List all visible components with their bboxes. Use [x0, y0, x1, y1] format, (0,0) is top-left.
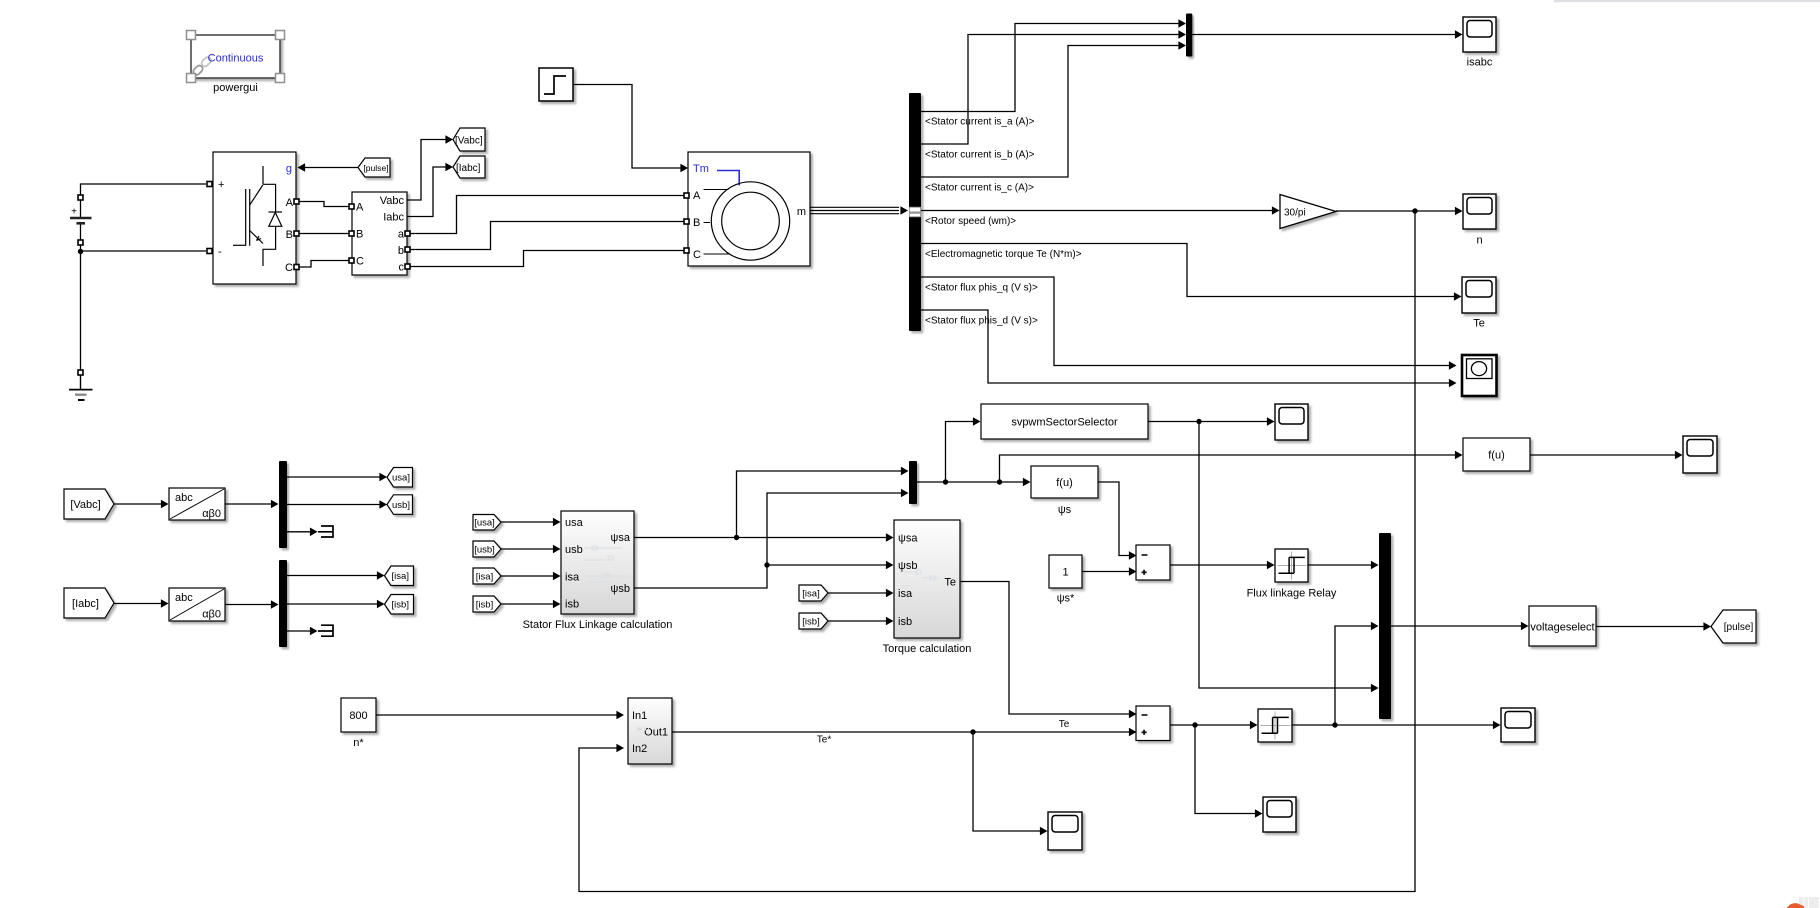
wire step to motor Tm [573, 85, 681, 169]
svg-text:[pulse]: [pulse] [363, 163, 388, 173]
svg-text:n*: n* [353, 737, 364, 749]
wire 800 to controller In1 [376, 714, 618, 716]
svg-text:Iabc: Iabc [383, 212, 404, 224]
wire bus out1 stator current is_a to Mux [921, 24, 1179, 112]
junction psi sa node [734, 535, 739, 540]
svg-text:B: B [286, 229, 293, 241]
From tag [usb] input [473, 541, 501, 557]
svg-text:αβ0: αβ0 [202, 508, 221, 520]
wire inverter A to measurement A [299, 202, 349, 207]
wire bus out6 stator flux phis_q to XY graph [921, 277, 1450, 366]
Demux currents [279, 560, 287, 647]
svg-text:<Stator flux phis_d (V s)>: <Stator flux phis_d (V s)> [925, 316, 1038, 327]
svg-text:[isb]: [isb] [802, 616, 819, 627]
powergui block (selected) [187, 31, 285, 83]
wire psi sa to torque calc [634, 537, 887, 539]
wire isa to torque calc [828, 592, 887, 594]
wire measurement Vabc to Goto tag [407, 140, 447, 201]
Scope n [1463, 194, 1496, 229]
svg-text:svpwmSectorSelector: svpwmSectorSelector [1011, 417, 1118, 429]
wire demux2 isb [287, 603, 378, 605]
Universal Bridge inverter block [213, 152, 296, 284]
svg-text:30/pi: 30/pi [1284, 208, 1306, 219]
svg-text:-: - [218, 246, 222, 258]
svg-text:+: + [218, 179, 224, 191]
Goto tag [Iabc] [453, 156, 485, 178]
svpwmSectorSelector block [981, 404, 1148, 439]
wire mux to isabc scope [1192, 34, 1455, 36]
wire isb to torque calc [828, 620, 887, 622]
svg-text:[usb]: [usb] [474, 544, 495, 555]
svg-text:In2: In2 [632, 743, 647, 755]
wire psi sa branch to mux2 [737, 471, 903, 538]
wire branch to flux angle Fcn [1000, 455, 1457, 482]
svg-text:ψs: ψs [1058, 504, 1072, 516]
wire gain to n scope [1336, 210, 1456, 212]
wire from Iabc to transform2 [114, 603, 162, 605]
bus wire motor m to Bus Selector [810, 207, 899, 213]
Scope torque error [1263, 797, 1296, 832]
wire demux2 unused to terminator [287, 630, 311, 632]
Fcn f(u) flux magnitude [1031, 466, 1098, 498]
Sum torque error [1136, 706, 1170, 741]
wire psi sb to torque calc [634, 493, 902, 588]
wire inverter C to measurement C [299, 261, 349, 268]
svg-text:[Iabc]: [Iabc] [72, 598, 99, 610]
wire isb to flux subsystem [501, 603, 554, 605]
wire measurement Iabc to Goto tag [407, 167, 447, 217]
svg-text:B: B [693, 217, 700, 229]
Constant 800 speed reference [341, 698, 376, 732]
Terminator 1 [318, 526, 333, 537]
wire torque error branch to scope [1195, 725, 1256, 814]
From tag [pulse] to inverter g [358, 158, 390, 177]
svg-text:Te: Te [1059, 719, 1070, 730]
svg-text:[isa]: [isa] [392, 571, 409, 582]
wire bus out3 stator current is_c to Mux [921, 46, 1179, 178]
measurement port squares [349, 204, 354, 209]
svg-text:[isb]: [isb] [392, 600, 409, 611]
Goto tag isa [385, 566, 414, 586]
Goto tag isb [385, 595, 414, 615]
wire battery+ to inverter+ [81, 184, 207, 196]
wire transform1 to demux1 [225, 503, 272, 505]
wire usa to flux subsystem [501, 521, 554, 523]
Goto tag [pulse] [1711, 610, 1756, 643]
Asynchronous Machine motor block [688, 152, 810, 266]
wire usb to flux subsystem [501, 548, 554, 550]
svg-text:usa]: usa] [392, 473, 410, 484]
junction battery minus node [78, 249, 83, 254]
svg-text:voltageselect: voltageselect [1530, 622, 1594, 634]
wire measurement a to motor A [410, 196, 684, 234]
Scope angle [1683, 436, 1717, 473]
svg-text:ψsb: ψsb [611, 583, 630, 595]
svg-text:f(u): f(u) [1488, 450, 1505, 462]
Goto tag usb [387, 495, 413, 515]
battery port squares [78, 195, 83, 200]
svg-text:Flux linkage Relay: Flux linkage Relay [1247, 588, 1337, 600]
junction to fu2 [997, 479, 1002, 484]
Scope torque status [1501, 708, 1535, 742]
junction relay2 node [1332, 722, 1337, 727]
Mux isabc [1186, 14, 1192, 57]
wire voltageselect to Goto pulse [1596, 626, 1704, 628]
wire bus out5 torque Te to Te scope [921, 244, 1455, 297]
svg-text:Continuous: Continuous [208, 53, 264, 65]
wire pulse to g port [303, 167, 358, 169]
svg-text:a: a [398, 229, 405, 241]
Constant psi s ref [1049, 555, 1082, 588]
Mux flux components [909, 461, 917, 504]
svg-text:αβ0: αβ0 [202, 609, 221, 621]
Speed controller subsystem [628, 698, 672, 764]
junction svpwm output node [1196, 419, 1201, 424]
junction to svpwm [943, 479, 948, 484]
junction torque error node [1192, 722, 1197, 727]
wire from Vabc to transform1 [114, 503, 162, 505]
wire measurement b to motor B [410, 222, 684, 250]
svg-text:[Vabc]: [Vabc] [70, 499, 100, 511]
wire mux2 output to Fcn psis [917, 481, 1024, 483]
wire relay1 to big mux input1 [1308, 564, 1372, 566]
svg-text:C: C [356, 256, 364, 268]
svg-text:<Stator flux phis_q (V s)>: <Stator flux phis_q (V s)> [925, 283, 1038, 294]
Fcn f(u) sector angle [1463, 438, 1530, 471]
Demux voltages [279, 461, 287, 548]
svg-text:usb]: usb] [392, 500, 410, 511]
svg-text:In1: In1 [632, 710, 647, 722]
abc to alphabeta transform 2 [169, 588, 225, 621]
wire constant to sum1 plus [1082, 571, 1130, 573]
svg-text:[Iabc]: [Iabc] [456, 163, 481, 174]
wire Te* branch to scope [973, 732, 1041, 831]
Bus Selector block [909, 93, 921, 331]
svg-text:[pulse]: [pulse] [1724, 622, 1754, 633]
svg-text:ψsa: ψsa [611, 532, 631, 544]
svg-text:c: c [399, 262, 405, 274]
svg-text:C: C [693, 249, 701, 261]
svg-text:800: 800 [349, 710, 367, 722]
window edge shadow top right [1554, 0, 1820, 2]
svg-text:f(u): f(u) [1056, 477, 1073, 489]
ground symbol [69, 375, 93, 400]
Terminator 2 [318, 625, 333, 636]
svg-text:ψsb: ψsb [898, 560, 917, 572]
Scope Te* ref [1048, 812, 1082, 850]
wire battery- to inverter- and ground [80, 244, 82, 373]
XY Graph scope [1462, 355, 1497, 396]
svg-text:[isa]: [isa] [802, 588, 819, 599]
Stator Flux Linkage calculation subsystem [561, 511, 634, 614]
Torque calculation subsystem [894, 520, 960, 638]
svg-text:Te*: Te* [817, 735, 832, 746]
svg-text:Vabc: Vabc [380, 195, 405, 207]
wire relay2 branch to big mux input2 [1335, 626, 1372, 725]
svg-text:Stator Flux Linkage calculatio: Stator Flux Linkage calculation [523, 619, 673, 631]
From tag [Iabc] [64, 588, 114, 618]
svg-text:[Vabc]: [Vabc] [455, 135, 483, 146]
Gain 30/pi [1280, 195, 1336, 229]
From tag [isa] input [473, 568, 501, 584]
wire demux1 usa [287, 476, 381, 478]
wire isa to flux subsystem [501, 575, 554, 577]
wire big mux to voltageselect [1391, 625, 1522, 627]
wire speed feedback to controller In2 [579, 211, 1415, 892]
wire svpwm down to big mux input3 [1199, 422, 1372, 689]
wire svpwm to sector scope [1148, 421, 1268, 423]
svg-text:n: n [1476, 235, 1482, 247]
svg-text:isb: isb [898, 616, 912, 628]
svg-text:ψs*: ψs* [1057, 593, 1075, 605]
Mux DTC switching table inputs [1379, 533, 1391, 719]
svg-text:isa: isa [898, 588, 913, 600]
svg-text:<Electromagnetic torque Te (N*: <Electromagnetic torque Te (N*m)> [925, 249, 1082, 260]
From tag [usa] input [473, 515, 501, 531]
From tag [isb] torque input [799, 613, 828, 629]
svg-text:ψsa: ψsa [898, 533, 918, 545]
watermark logo bottom right [1787, 897, 1819, 908]
Flux linkage Relay block [1275, 549, 1308, 582]
svg-text:B: B [356, 229, 363, 241]
svg-text:isb: isb [565, 599, 579, 611]
svg-text:abc: abc [175, 492, 193, 504]
svg-text:<Stator current is_a (A)>: <Stator current is_a (A)> [925, 117, 1035, 128]
Scope sector [1275, 404, 1308, 440]
wire bus out2 stator current is_b to Mux [921, 35, 1179, 145]
svg-text:m: m [797, 206, 806, 218]
svg-text:abc: abc [175, 592, 193, 604]
DC voltage source battery [70, 200, 92, 240]
svg-text:C: C [285, 262, 293, 274]
svg-text:<Stator current is_b (A)>: <Stator current is_b (A)> [925, 150, 1035, 161]
svg-text:A: A [693, 190, 701, 202]
svg-text:powergui: powergui [213, 82, 258, 94]
junction psi sb node [764, 562, 769, 567]
wire fu2 to scope [1530, 454, 1676, 456]
wire sum1 to flux relay [1170, 564, 1268, 566]
svg-text:usb: usb [565, 544, 583, 556]
voltageselect block [1529, 606, 1596, 646]
ground port square [78, 370, 83, 375]
wire fu to sum1 minus [1098, 482, 1130, 556]
wire Te* from controller to sum2 plus [672, 731, 1130, 733]
svg-text:A: A [286, 197, 294, 209]
svg-text:Te: Te [944, 577, 956, 589]
svg-text:<Rotor speed (wm)>: <Rotor speed (wm)> [925, 216, 1016, 227]
svg-text:g: g [286, 163, 292, 175]
svg-text:+: + [71, 207, 77, 218]
wire inverter B to measurement B [299, 233, 349, 235]
Step block [539, 68, 573, 101]
Three-Phase V-I Measurement block [352, 192, 407, 275]
svg-text:1: 1 [1062, 567, 1068, 579]
inverter port squares [207, 182, 212, 187]
svg-text:[isa]: [isa] [476, 571, 493, 582]
svg-text:Te: Te [1473, 318, 1485, 330]
wire demux1 unused to terminator [287, 531, 311, 533]
Torque Relay block [1258, 709, 1292, 742]
svg-text:Out1: Out1 [644, 727, 668, 739]
svg-text:A: A [356, 202, 364, 214]
wire measurement c to motor C [410, 251, 684, 267]
svg-text:[isb]: [isb] [476, 599, 493, 610]
wire transform2 to demux2 [225, 604, 272, 606]
From tag [Vabc] [64, 489, 114, 519]
wire demux2 isa [287, 575, 378, 577]
Sum flux error [1136, 545, 1170, 580]
wire branch up to svpwm input [946, 422, 975, 483]
svg-text:Tm: Tm [693, 163, 709, 175]
junction speed node [1412, 208, 1417, 213]
wire psi sb branch to torque calc [767, 564, 887, 566]
svg-text:isa: isa [565, 572, 580, 584]
bus connection marks [909, 207, 920, 217]
From tag [isb] input [473, 596, 501, 612]
abc to alphabeta transform 1 [169, 488, 225, 520]
svg-text:b: b [398, 245, 404, 257]
svg-text:<Stator current is_c (A)>: <Stator current is_c (A)> [925, 183, 1034, 194]
motor port squares [684, 193, 689, 198]
From tag [isa] torque input [799, 585, 828, 601]
Scope Te [1462, 277, 1496, 313]
wire demux1 usb [287, 504, 381, 506]
Goto tag usa [387, 468, 413, 488]
junction Te* branch [970, 729, 975, 734]
Goto tag [Vabc] [453, 128, 485, 151]
wire bus out4 rotor speed to gain [921, 210, 1272, 212]
svg-text:usa: usa [565, 517, 584, 529]
wire sum2 to torque relay [1170, 724, 1251, 726]
svg-text:Torque calculation: Torque calculation [883, 643, 972, 655]
svg-text:[usa]: [usa] [474, 518, 495, 529]
svg-text:isabc: isabc [1467, 57, 1493, 69]
Scope isabc [1463, 17, 1496, 52]
wire torque calc Te to sum2 minus [960, 582, 1130, 715]
wire relay2 output [1292, 724, 1494, 726]
wire bus out7 stator flux phis_d to XY graph [921, 310, 1450, 383]
